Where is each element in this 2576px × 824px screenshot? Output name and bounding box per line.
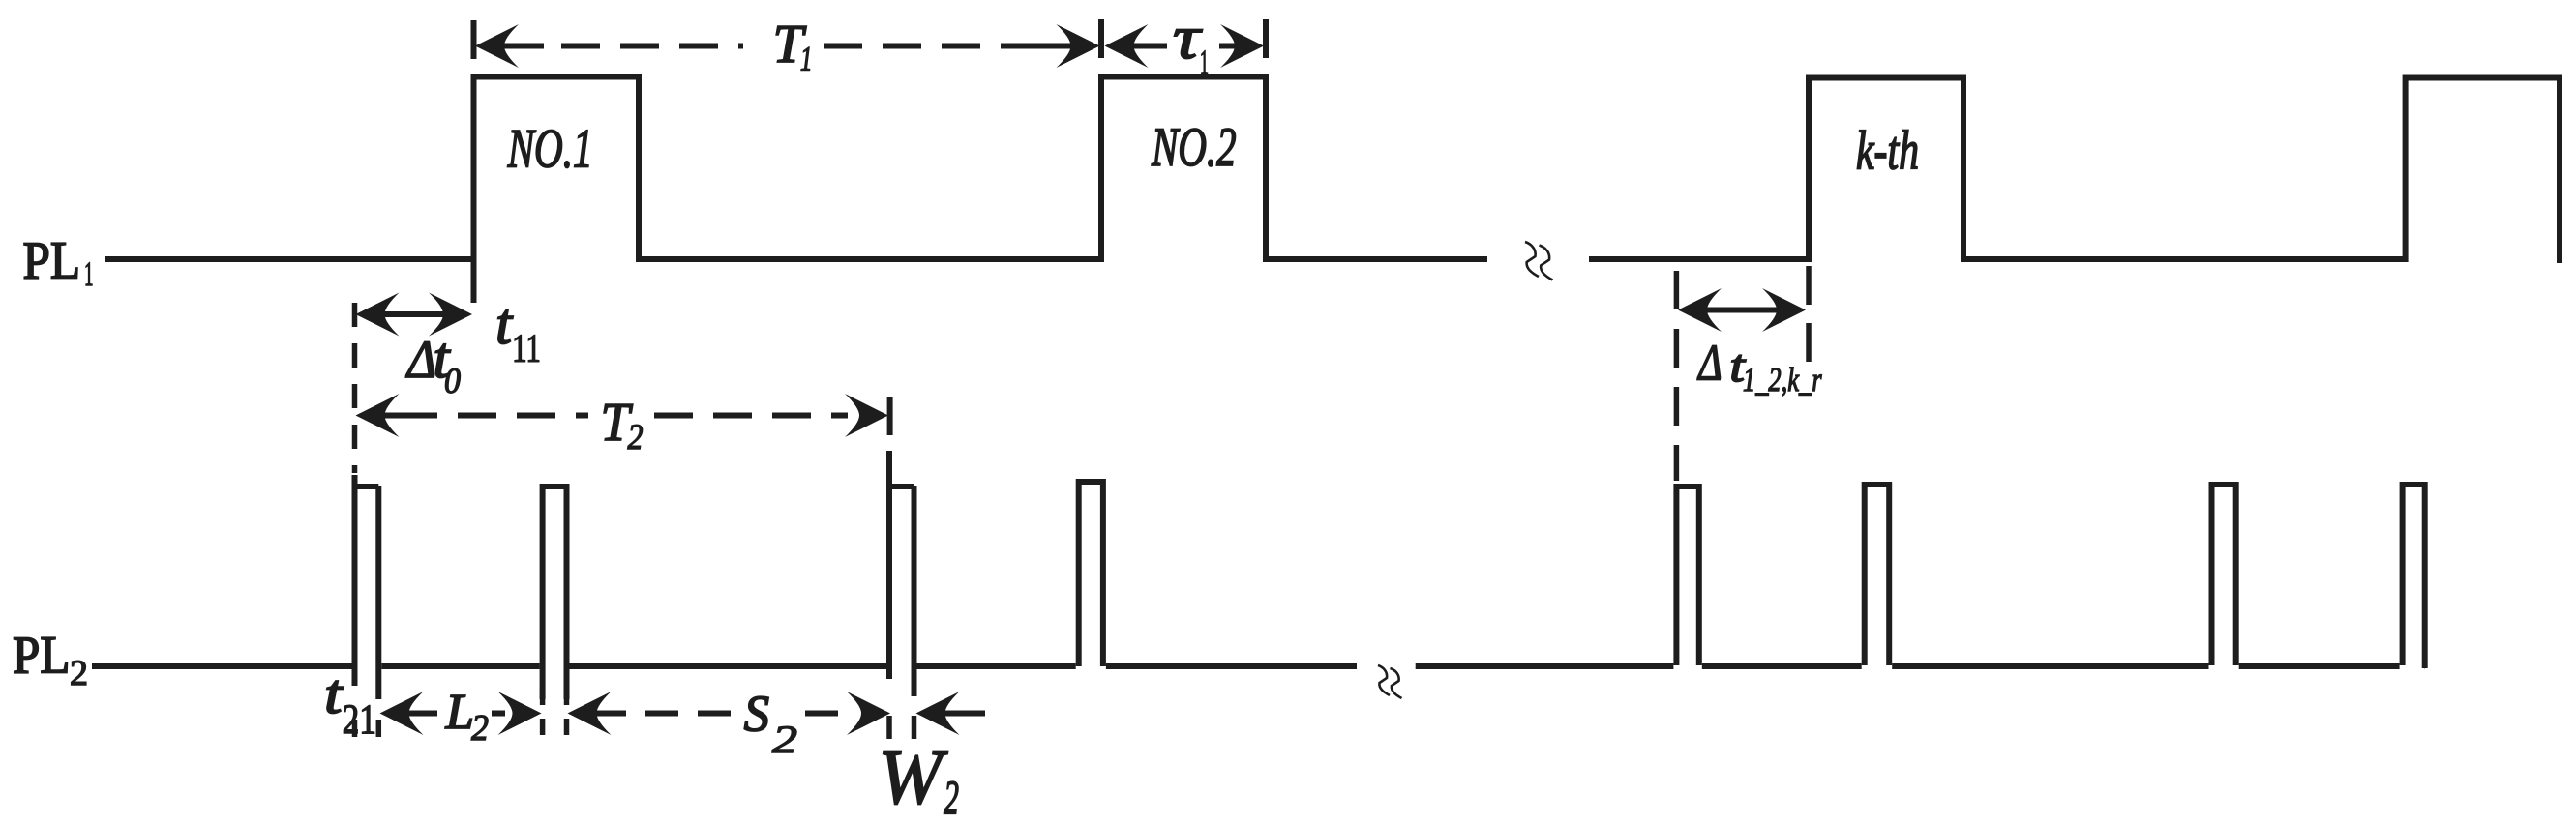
pulse spike2 of PL2 — [543, 486, 567, 699]
node ticks below spike3 — [886, 716, 892, 739]
wire T1 dimension arrow (dashed, double-headed) — [475, 24, 519, 68]
wire PL1 waveform right segment — [1589, 78, 2560, 264]
svg-text:W: W — [879, 736, 948, 821]
pulse spike1 of PL2 (t21) — [355, 475, 379, 699]
wire L2 dimension arrow — [380, 692, 424, 735]
svg-text:L: L — [445, 685, 474, 740]
pulse spike5 of PL2 — [1865, 485, 1890, 665]
svg-text:2: 2 — [772, 718, 797, 761]
svg-text:PL: PL — [13, 626, 71, 685]
wire PL2 baseline left of spike1 — [92, 663, 352, 669]
svg-text:2: 2 — [944, 770, 959, 824]
wire PL2 baseline spike3-spike3b — [917, 663, 1076, 669]
node T1 left tick above pulse1 rising edge — [471, 20, 477, 59]
svg-text:τ: τ — [1173, 3, 1203, 72]
node tick below spike1 right — [376, 720, 382, 737]
wire PL2 baseline spike4-spike5 — [1702, 663, 1862, 669]
wire PL2 baseline spike3b-break — [1106, 663, 1357, 669]
wire dashed vertical at x=1732 — [1674, 271, 1680, 481]
svg-text:NO.1: NO.1 — [507, 119, 593, 180]
pulse spike3 of PL2 (W2) — [889, 451, 914, 696]
pulse spike4 of PL2 — [1676, 486, 1698, 665]
node T1/tau1 tick above pulse2 rising edge — [1098, 19, 1104, 58]
wire dashed vertical at x=366 (t21 reference) — [352, 303, 358, 473]
svg-text:11: 11 — [512, 325, 541, 369]
svg-text:NO.2: NO.2 — [1151, 117, 1236, 178]
svg-text:1_2,k_r: 1_2,k_r — [1743, 361, 1822, 398]
wire dashed vertical at k-th rising edge below baseline — [1806, 266, 1812, 366]
svg-text:Δ: Δ — [405, 330, 436, 389]
svg-text:t: t — [495, 292, 513, 356]
wire tau1 dimension arrow — [1105, 24, 1149, 68]
wire PL2 baseline spike6-spike7 — [2239, 663, 2400, 669]
svg-text:k-th: k-th — [1856, 121, 1919, 182]
svg-text:1: 1 — [84, 254, 94, 293]
node tau1 right tick above pulse2 falling edge — [1263, 19, 1269, 58]
wire T2 dimension arrow (dashed, double-headed) — [356, 394, 400, 437]
wire S2 dimension arrow (dashed) — [568, 692, 612, 735]
wire PL2 break symbol — [1378, 665, 1390, 695]
svg-text:1: 1 — [800, 39, 813, 77]
node T2 right tick — [887, 397, 893, 435]
wire Delta-t0 dimension arrow — [356, 293, 400, 337]
wire PL1 waveform left segment — [105, 77, 1487, 260]
wire PL1 break symbol — [1525, 242, 1539, 277]
svg-text:0: 0 — [444, 362, 461, 401]
pulse spike7 of PL2 — [2403, 485, 2425, 668]
svg-text:1: 1 — [1200, 43, 1209, 81]
wire PL2 baseline spike7 tail — [2422, 663, 2428, 669]
svg-text:21: 21 — [343, 697, 376, 743]
pulse spike6 of PL2 — [2212, 485, 2236, 665]
node tick below spike1 left — [352, 720, 358, 737]
node ticks below spike2 — [540, 689, 546, 741]
wire Delta-t_1_2,k_r dimension arrow — [1678, 288, 1722, 332]
svg-text:2: 2 — [628, 418, 644, 457]
svg-text:PL: PL — [23, 231, 81, 290]
wire W2 right-side outside arrow — [916, 692, 960, 735]
wire PL2 baseline break-spike4 — [1416, 663, 1674, 669]
wire PL2 baseline spike1-spike2 — [381, 663, 539, 669]
wire PL2 baseline spike2-spike3 — [570, 663, 887, 669]
svg-text:2: 2 — [70, 654, 88, 693]
node t11 tick: pulse1 rising edge extended below baseline — [471, 259, 477, 303]
wire PL2 baseline spike5-spike6 — [1892, 663, 2208, 669]
svg-text:Δ: Δ — [1697, 335, 1722, 391]
pulse spike3b of PL2 — [1079, 482, 1103, 666]
svg-text:S: S — [744, 687, 769, 743]
svg-text:2: 2 — [471, 708, 489, 749]
